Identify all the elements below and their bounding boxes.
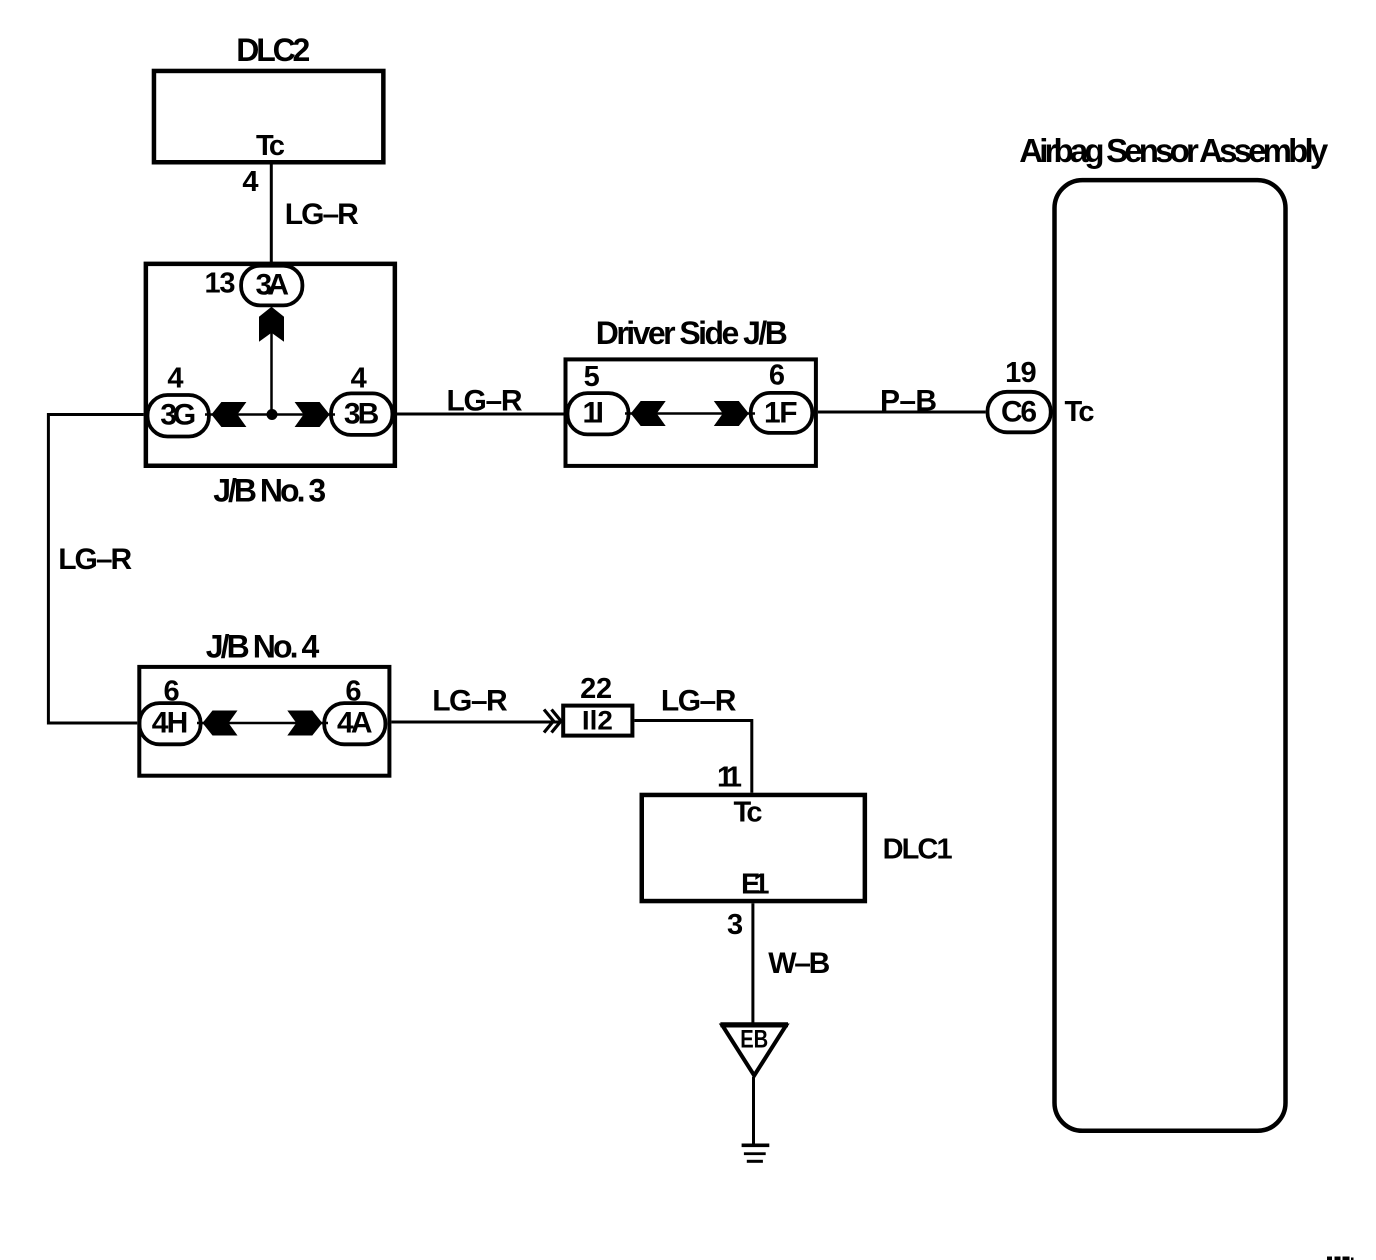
svg-text:Driver Side J/B: Driver Side J/B bbox=[596, 315, 788, 351]
svg-text:DLC2: DLC2 bbox=[236, 32, 310, 68]
svg-text:1I: 1I bbox=[582, 397, 604, 430]
svg-text:4: 4 bbox=[351, 363, 367, 395]
svg-text:Tc: Tc bbox=[734, 797, 763, 829]
svg-text:3: 3 bbox=[727, 909, 743, 941]
svg-text:LG–R: LG–R bbox=[432, 685, 508, 718]
svg-text:EB: EB bbox=[740, 1026, 768, 1054]
svg-text:Il2: Il2 bbox=[582, 706, 613, 736]
svg-text:4H: 4H bbox=[152, 707, 189, 740]
svg-text:DLC1: DLC1 bbox=[883, 834, 953, 866]
svg-text:E1: E1 bbox=[741, 869, 770, 901]
svg-text:4: 4 bbox=[167, 363, 183, 395]
svg-text:5: 5 bbox=[584, 361, 600, 393]
svg-text:J/B No. 3: J/B No. 3 bbox=[213, 473, 326, 509]
svg-text:11: 11 bbox=[717, 762, 742, 794]
svg-text:22: 22 bbox=[580, 673, 612, 705]
svg-text:Tc: Tc bbox=[256, 130, 285, 162]
svg-text:6: 6 bbox=[164, 676, 180, 708]
svg-text:19: 19 bbox=[1005, 357, 1037, 389]
svg-text:3B: 3B bbox=[344, 398, 380, 431]
svg-text:LG–R: LG–R bbox=[661, 685, 737, 718]
svg-text:4: 4 bbox=[242, 166, 258, 198]
svg-text:W–B: W–B bbox=[768, 947, 830, 980]
svg-text:LG–R: LG–R bbox=[58, 543, 132, 576]
svg-text:3G: 3G bbox=[160, 399, 196, 432]
svg-text:LG–R: LG–R bbox=[285, 198, 359, 231]
svg-text:4A: 4A bbox=[337, 707, 373, 740]
svg-text:6: 6 bbox=[769, 360, 785, 392]
svg-text:Tc: Tc bbox=[1065, 396, 1095, 428]
svg-text:3A: 3A bbox=[256, 269, 290, 302]
svg-text:J/B No. 4: J/B No. 4 bbox=[206, 629, 320, 665]
svg-text:13: 13 bbox=[205, 268, 236, 300]
svg-text:1F: 1F bbox=[764, 397, 798, 430]
svg-text:6: 6 bbox=[345, 676, 361, 708]
svg-text:C6: C6 bbox=[1001, 396, 1037, 429]
svg-text:P–B: P–B bbox=[880, 385, 937, 418]
svg-text:Airbag Sensor Assembly: Airbag Sensor Assembly bbox=[1019, 132, 1329, 169]
svg-text:LG–R: LG–R bbox=[447, 385, 523, 418]
